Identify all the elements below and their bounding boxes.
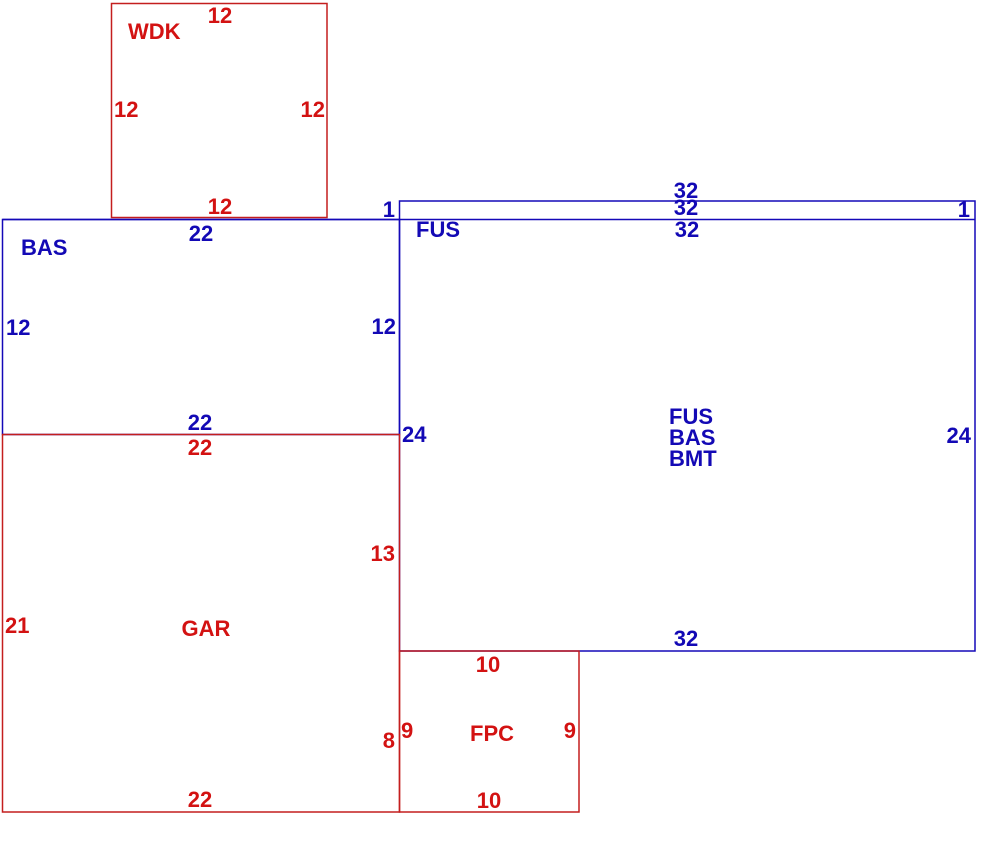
- svg-text:GAR: GAR: [182, 616, 231, 641]
- wire BAS top edge / FUS-BAS-BMT interior line: [3, 219, 976, 221]
- svg-text:32: 32: [674, 626, 698, 651]
- svg-text:13: 13: [371, 541, 395, 566]
- svg-text:10: 10: [476, 652, 500, 677]
- area FPC outline: [400, 651, 580, 812]
- svg-text:9: 9: [564, 718, 576, 743]
- svg-text:9: 9: [401, 718, 413, 743]
- svg-text:12: 12: [372, 314, 396, 339]
- svg-text:21: 21: [5, 613, 29, 638]
- svg-text:12: 12: [6, 315, 30, 340]
- svg-text:24: 24: [947, 423, 972, 448]
- svg-text:22: 22: [189, 221, 213, 246]
- area FUS outer outline (1-ft top strip): [400, 201, 976, 651]
- svg-text:32: 32: [675, 217, 699, 242]
- area GAR outline: [3, 435, 400, 813]
- svg-text:BAS: BAS: [21, 235, 67, 260]
- svg-text:1: 1: [958, 197, 970, 222]
- svg-text:BMT: BMT: [669, 446, 717, 471]
- svg-text:22: 22: [188, 435, 212, 460]
- area BAS outline: [3, 220, 400, 435]
- svg-text:FUS: FUS: [416, 217, 460, 242]
- area WDK outline: [112, 4, 328, 218]
- svg-text:FPC: FPC: [470, 721, 514, 746]
- svg-text:12: 12: [301, 97, 325, 122]
- svg-text:10: 10: [477, 788, 501, 813]
- svg-text:22: 22: [188, 410, 212, 435]
- svg-text:22: 22: [188, 787, 212, 812]
- svg-text:1: 1: [383, 197, 395, 222]
- svg-text:12: 12: [208, 3, 232, 28]
- svg-text:8: 8: [383, 728, 395, 753]
- svg-text:24: 24: [402, 422, 427, 447]
- svg-text:12: 12: [208, 194, 232, 219]
- svg-text:12: 12: [114, 97, 138, 122]
- svg-text:WDK: WDK: [128, 19, 181, 44]
